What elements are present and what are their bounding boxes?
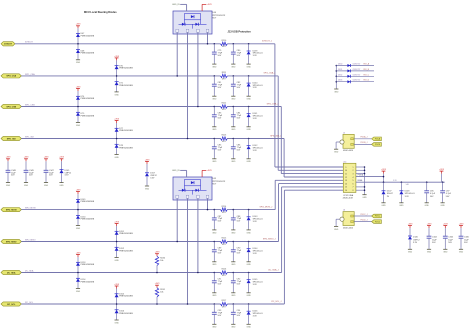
svg-text:MCU Local Steering Diodes: MCU Local Steering Diodes <box>84 11 117 14</box>
svg-text:GND: GND <box>246 232 251 234</box>
svg-text:43045-1618: 43045-1618 <box>343 197 353 199</box>
svg-text:GND: GND <box>76 62 81 64</box>
svg-text:I2C_SDA: I2C_SDA <box>25 269 34 272</box>
svg-text:GND: GND <box>212 67 217 69</box>
svg-text:GND: GND <box>114 322 119 324</box>
svg-text:GND: GND <box>212 161 217 163</box>
svg-text:49.9: 49.9 <box>222 141 226 143</box>
svg-text:CDSOT-T: CDSOT-T <box>353 74 362 76</box>
svg-text:3.3V: 3.3V <box>150 177 155 179</box>
svg-text:14: 14 <box>345 183 347 185</box>
svg-text:PMEG2005EB: PMEG2005EB <box>119 130 133 132</box>
svg-text:GND: GND <box>231 295 236 297</box>
svg-text:PMEG2005EB: PMEG2005EB <box>119 147 133 149</box>
svg-text:GND: GND <box>381 205 386 207</box>
svg-text:3.3V: 3.3V <box>405 196 410 198</box>
svg-text:GND: GND <box>212 99 217 101</box>
svg-text:4: 4 <box>353 177 354 179</box>
svg-text:R210: R210 <box>222 40 227 42</box>
svg-text:43045-0610: 43045-0610 <box>343 150 353 152</box>
svg-text:J5: J5 <box>343 132 345 134</box>
svg-text:3.3V: 3.3V <box>413 242 418 244</box>
svg-text:D133: D133 <box>338 80 342 82</box>
svg-text:J6: J6 <box>343 210 345 212</box>
svg-text:GND: GND <box>76 125 81 127</box>
svg-text:3.3V: 3.3V <box>253 150 258 152</box>
svg-text:J13 USB Protection: J13 USB Protection <box>228 31 252 34</box>
svg-text:R217: R217 <box>222 300 227 302</box>
svg-text:GND: GND <box>76 291 81 293</box>
svg-text:49.9: 49.9 <box>222 46 226 48</box>
svg-text:GND: GND <box>246 67 251 69</box>
svg-text:GND: GND <box>408 252 413 254</box>
svg-text:4.7µF: 4.7µF <box>430 193 436 195</box>
svg-text:GND: GND <box>231 129 236 131</box>
svg-text:PMEG2005EB: PMEG2005EB <box>119 313 133 315</box>
svg-text:GND: GND <box>334 229 339 231</box>
svg-text:PMEG2005EB: PMEG2005EB <box>81 264 95 266</box>
svg-text:15: 15 <box>345 187 347 189</box>
svg-text:8: 8 <box>353 190 354 192</box>
svg-text:43045-0610: 43045-0610 <box>343 227 353 229</box>
svg-text:GND: GND <box>76 228 81 230</box>
svg-text:SPI1_CSA_J: SPI1_CSA_J <box>264 72 276 75</box>
svg-text:3.3V: 3.3V <box>253 284 258 286</box>
svg-text:GND: GND <box>425 205 430 207</box>
svg-text:I2C_SDA_J: I2C_SDA_J <box>268 268 278 271</box>
svg-text:6: 6 <box>353 183 354 185</box>
svg-text:3.3V: 3.3V <box>253 55 258 57</box>
svg-text:PDCD: PDCD <box>375 221 381 223</box>
svg-text:I2C_SCL: I2C_SCL <box>7 304 16 306</box>
svg-text:R213: R213 <box>222 135 227 137</box>
svg-text:3.3V: 3.3V <box>65 175 70 177</box>
svg-text:PMEG2005EB: PMEG2005EB <box>119 296 133 298</box>
svg-text:RIO_D: RIO_D <box>364 80 370 82</box>
svg-text:PMEG2005EB: PMEG2005EB <box>81 98 95 100</box>
svg-text:GND: GND <box>114 157 119 159</box>
svg-text:PDCB_J: PDCB_J <box>361 142 368 144</box>
svg-text:10k: 10k <box>160 292 163 294</box>
svg-text:GND: GND <box>246 295 251 297</box>
svg-text:GND_IN: GND_IN <box>172 4 180 6</box>
svg-text:PMEG2005EB: PMEG2005EB <box>119 85 133 87</box>
svg-text:GND: GND <box>231 264 236 266</box>
svg-text:D130: D130 <box>338 64 342 66</box>
svg-text:GND: GND <box>440 205 445 207</box>
svg-text:SPI1_SDI: SPI1_SDI <box>7 138 16 140</box>
svg-text:GND: GND <box>145 188 150 190</box>
svg-text:GND: GND <box>212 129 217 131</box>
svg-text:SPI2_MOSI: SPI2_MOSI <box>6 209 17 211</box>
svg-text:GND: GND <box>231 67 236 69</box>
svg-text:CMF12: CMF12 <box>413 239 420 241</box>
svg-text:2: 2 <box>353 170 354 172</box>
svg-text:RIO_C: RIO_C <box>364 74 370 76</box>
svg-text:RIO_B: RIO_B <box>364 69 370 71</box>
svg-text:49.9: 49.9 <box>222 275 226 277</box>
svg-text:PDCA: PDCA <box>375 138 381 141</box>
svg-text:13: 13 <box>345 180 347 182</box>
svg-text:PWRA: PWRA <box>358 173 364 176</box>
svg-text:11: 11 <box>345 173 347 175</box>
svg-text:GND: GND <box>231 327 236 329</box>
svg-text:12: 12 <box>345 177 347 179</box>
svg-text:R214: R214 <box>222 206 227 208</box>
svg-text:10k: 10k <box>160 260 163 262</box>
svg-text:GND: GND <box>231 161 236 163</box>
svg-text:3.3V: 3.3V <box>253 118 258 120</box>
svg-text:GND: GND <box>399 205 404 207</box>
svg-text:5: 5 <box>353 180 354 182</box>
svg-text:SPI1_SDI_J: SPI1_SDI_J <box>270 135 281 137</box>
svg-text:PMEG2005EB: PMEG2005EB <box>119 68 133 70</box>
svg-text:SPI1_CSB: SPI1_CSB <box>6 106 16 108</box>
svg-text:D132: D132 <box>338 74 342 76</box>
svg-text:CDSOT-T: CDSOT-T <box>353 80 362 82</box>
svg-text:PDCD_J: PDCD_J <box>361 219 368 221</box>
svg-text:GND: GND <box>114 94 119 96</box>
svg-text:PMEG2005EB: PMEG2005EB <box>119 233 133 235</box>
svg-text:GND: GND <box>246 99 251 101</box>
svg-text:D131: D131 <box>338 69 342 71</box>
svg-text:3.3V: 3.3V <box>253 87 258 89</box>
svg-text:3.3V: 3.3V <box>253 315 258 317</box>
svg-text:49.9: 49.9 <box>222 109 226 111</box>
svg-text:GND: GND <box>212 327 217 329</box>
svg-text:49.9: 49.9 <box>222 306 226 308</box>
svg-text:R215: R215 <box>222 238 227 240</box>
svg-text:GND: GND <box>459 252 464 254</box>
svg-text:PMEG2005EB: PMEG2005EB <box>81 281 95 283</box>
svg-text:GND: GND <box>231 99 236 101</box>
svg-text:PDCC_J: PDCC_J <box>361 214 368 216</box>
svg-text:10µF: 10µF <box>464 239 469 241</box>
svg-text:10: 10 <box>345 170 347 172</box>
svg-text:GND: GND <box>212 264 217 266</box>
svg-text:PDCC: PDCC <box>375 216 381 218</box>
svg-text:PMEG2005EB: PMEG2005EB <box>81 219 95 221</box>
svg-text:49.9: 49.9 <box>222 78 226 80</box>
svg-text:10µF: 10µF <box>432 239 437 241</box>
svg-text:CDSOT-T: CDSOT-T <box>353 69 362 71</box>
svg-text:GND: GND <box>443 252 448 254</box>
svg-text:49.9: 49.9 <box>222 244 226 246</box>
svg-text:I2C_SCL_J: I2C_SCL_J <box>271 301 281 303</box>
svg-text:PMEG2005EB: PMEG2005EB <box>81 115 95 117</box>
svg-text:I2C_SDA: I2C_SDA <box>7 271 16 274</box>
svg-text:CDSOT-T: CDSOT-T <box>353 64 362 66</box>
svg-text:GND: GND <box>212 295 217 297</box>
svg-text:SPI1_CSA: SPI1_CSA <box>25 73 35 76</box>
svg-text:49.9: 49.9 <box>222 212 226 214</box>
svg-text:GND: GND <box>24 185 29 187</box>
svg-text:SD047: SD047 <box>387 193 394 195</box>
svg-text:PMEG2005EB: PMEG2005EB <box>81 35 95 37</box>
svg-text:GND: GND <box>6 185 11 187</box>
svg-text:PDCB: PDCB <box>375 144 381 146</box>
svg-text:1: 1 <box>353 167 354 169</box>
svg-text:GND: GND <box>114 260 119 262</box>
svg-text:J14: J14 <box>343 161 346 163</box>
svg-text:GND: GND <box>246 161 251 163</box>
svg-text:GND: GND <box>246 264 251 266</box>
svg-text:GND: GND <box>212 232 217 234</box>
svg-text:SPI2_MOSI_J: SPI2_MOSI_J <box>260 206 273 208</box>
svg-text:SPI2_MISO: SPI2_MISO <box>6 241 17 243</box>
svg-text:GND: GND <box>231 232 236 234</box>
svg-text:9: 9 <box>345 167 346 169</box>
svg-text:XCVR GNA: XCVR GNA <box>343 194 354 197</box>
svg-text:16: 16 <box>345 190 347 192</box>
svg-text:PMEG2005EB: PMEG2005EB <box>81 201 95 203</box>
svg-text:BMAL: BMAL <box>358 179 363 182</box>
svg-text:SPI1_CSA: SPI1_CSA <box>6 75 16 78</box>
svg-text:SPI2_MISO_J: SPI2_MISO_J <box>263 238 276 240</box>
svg-text:3.3V: 3.3V <box>253 253 258 255</box>
svg-text:4.7µF: 4.7µF <box>446 193 452 195</box>
svg-text:GND: GND <box>246 327 251 329</box>
svg-text:GND: GND <box>427 252 432 254</box>
svg-text:SP1005-01: SP1005-01 <box>405 193 416 195</box>
svg-text:GND: GND <box>362 197 367 199</box>
svg-text:GND: GND <box>246 129 251 131</box>
svg-text:R212: R212 <box>222 103 227 105</box>
svg-text:3: 3 <box>353 173 354 175</box>
svg-text:R216: R216 <box>222 269 227 271</box>
svg-text:PDCA_J: PDCA_J <box>361 136 368 139</box>
svg-text:RIO_A: RIO_A <box>364 63 370 66</box>
svg-text:GND: GND <box>334 91 339 93</box>
svg-text:R211: R211 <box>222 72 226 74</box>
svg-text:PMEG2005EB: PMEG2005EB <box>119 250 133 252</box>
svg-text:SPI1_CSB_J: SPI1_CSB_J <box>267 103 279 105</box>
svg-text:10µF: 10µF <box>448 239 453 241</box>
svg-text:GND_IN: GND_IN <box>172 170 180 172</box>
svg-text:GND: GND <box>334 152 339 154</box>
svg-text:7: 7 <box>353 187 354 189</box>
svg-text:3.3V: 3.3V <box>253 221 258 223</box>
svg-text:PMEG2005EB: PMEG2005EB <box>81 53 95 55</box>
svg-text:3V3OUT: 3V3OUT <box>4 44 13 46</box>
svg-text:3V3OUT_J: 3V3OUT_J <box>262 41 272 43</box>
svg-text:GND: GND <box>59 185 64 187</box>
svg-text:GND: GND <box>44 185 49 187</box>
